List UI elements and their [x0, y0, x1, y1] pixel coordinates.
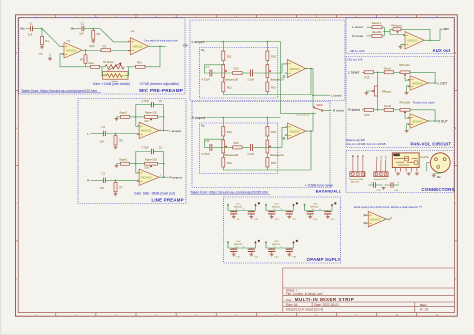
- capacitor C4: [102, 131, 104, 136]
- node pan: [377, 109, 379, 111]
- stub U4B in1: [365, 214, 369, 216]
- wire fb top right: [154, 104, 164, 106]
- wire pot wiper row: [212, 146, 233, 148]
- capacitor C10: [268, 211, 275, 213]
- svg-text:U3B: U3B: [144, 168, 149, 170]
- svg-text:U4C: U4C: [237, 241, 242, 243]
- svg-text:NE5532: NE5532: [412, 81, 423, 85]
- svg-text:R toned: R toned: [333, 109, 344, 113]
- svg-text:U5C: U5C: [275, 241, 280, 243]
- ground C16: [271, 252, 273, 255]
- resistor R12: [222, 82, 225, 92]
- wire L toned in: [362, 71, 364, 73]
- wire node to R6: [115, 134, 117, 136]
- power arrow U4C: [254, 241, 256, 243]
- grounds J3: [397, 172, 399, 175]
- svg-text:R13: R13: [234, 67, 239, 71]
- svg-text:U1A: U1A: [66, 40, 71, 43]
- wire inv stub: [407, 124, 410, 130]
- wire un-toned bypass: [281, 42, 317, 114]
- capacitor C14: [248, 248, 255, 250]
- svg-text:+-/15dB tone range: +-/15dB tone range: [305, 183, 333, 187]
- node fb mid: [135, 116, 137, 118]
- wire supply h U4C: [228, 247, 256, 249]
- wire U1B output: [148, 45, 165, 47]
- capacitor C5: [150, 149, 152, 154]
- opamp supply section box: [224, 197, 341, 263]
- node pot right: [163, 163, 165, 165]
- wire opamp out: [306, 130, 313, 132]
- wire rv to pot: [394, 109, 400, 111]
- node U1B fb: [159, 46, 161, 48]
- svg-text:MIC PRE-PREAMP: MIC PRE-PREAMP: [139, 88, 183, 93]
- op-amp U5A: [410, 76, 428, 90]
- resistor Rvol2: [384, 108, 394, 111]
- power arrow U5C: [292, 241, 294, 243]
- svg-text:RauxR1: RauxR1: [372, 30, 382, 34]
- pot RPpan1: [375, 86, 378, 96]
- capacitor C2: [81, 26, 83, 31]
- node in r: [267, 41, 269, 43]
- wire drop left col: [222, 42, 224, 52]
- wire fb down: [310, 69, 312, 95]
- switch SW3 box: [103, 72, 129, 80]
- ground C20: [327, 214, 329, 217]
- node pot right: [163, 116, 165, 118]
- power pin U5C: [265, 242, 267, 249]
- ground Rgain2: [116, 164, 118, 166]
- power pin U3C: [304, 204, 306, 211]
- svg-text:SAL./on x10/3dB, SAL./on x10/3: SAL./on x10/3dB, SAL./on x10/3dB: [347, 143, 386, 146]
- node mic1: [41, 28, 43, 30]
- wire rgain: [130, 163, 136, 165]
- node L toned tap: [312, 94, 314, 96]
- svg-text:Rg: Rg: [201, 124, 205, 128]
- trimmer RV1 arrow: [108, 63, 122, 71]
- svg-text:R20: R20: [365, 113, 370, 117]
- svg-text:R10: R10: [137, 61, 142, 65]
- ground U4 noninv: [401, 45, 406, 46]
- svg-text:CONNECTORS: CONNECTORS: [422, 187, 455, 192]
- connector J2 pins: [375, 161, 377, 172]
- ground C14: [250, 252, 252, 255]
- svg-text:R23: R23: [234, 141, 239, 145]
- capacitor C15: [372, 182, 374, 188]
- wire out to aux label: [440, 29, 443, 40]
- pot RPvol1B: [400, 108, 410, 111]
- baxandall section box: [192, 102, 330, 188]
- wire ch2 out to switch: [312, 113, 314, 132]
- node fb out: [163, 130, 165, 132]
- wire op out: [428, 120, 437, 122]
- svg-text:L toned: L toned: [348, 71, 359, 75]
- svg-text:1uF: 1uF: [100, 186, 105, 190]
- svg-text:TR Resist: TR Resist: [103, 61, 114, 64]
- node aux sum: [384, 31, 386, 33]
- wire rgain: [130, 116, 136, 118]
- op-amp U2B: [287, 123, 305, 139]
- wire pot left: [136, 163, 145, 165]
- svg-text:1uF: 1uF: [100, 139, 105, 143]
- svg-text:BAXANDALL: BAXANDALL: [316, 190, 342, 194]
- node fb out: [434, 82, 436, 84]
- svg-text:Mic: Mic: [71, 26, 76, 30]
- svg-text:R19: R19: [365, 75, 370, 79]
- capacitor C13: [248, 211, 255, 213]
- wire C1 to node: [33, 28, 42, 30]
- svg-text:R6: R6: [119, 139, 123, 143]
- wire rail to trimmer: [100, 66, 105, 68]
- svg-text:3: 3: [128, 41, 129, 43]
- wire xlr leads: [427, 163, 431, 169]
- svg-text:1: 1: [160, 128, 161, 130]
- wire r13 to cap: [242, 72, 250, 74]
- resistor RauxR1: [372, 34, 382, 37]
- wire r to pot l: [222, 61, 224, 65]
- svg-text:1uF: 1uF: [79, 32, 84, 36]
- svg-text:R15: R15: [271, 54, 276, 58]
- svg-text:NE5532: NE5532: [141, 129, 152, 133]
- wire cap to opamp: [253, 64, 288, 73]
- switch SW3 zigzag: [107, 74, 123, 78]
- svg-text:L OUT: L OUT: [381, 155, 383, 161]
- resistor R6: [114, 136, 117, 146]
- ground C19: [309, 214, 311, 217]
- node stage in: [115, 133, 117, 135]
- wire U3B output: [159, 176, 169, 178]
- wire rfb left: [390, 29, 393, 31]
- svg-text:Rvol2: Rvol2: [384, 104, 391, 108]
- svg-text:LINE PREAMP: LINE PREAMP: [152, 198, 184, 203]
- resistor R26: [266, 158, 269, 168]
- resistor R2: [84, 55, 87, 64]
- ground C21: [233, 252, 235, 255]
- tone section box: [190, 20, 345, 101]
- wire aux sum node: [383, 27, 385, 36]
- node in r: [267, 117, 269, 119]
- wire bottom join: [223, 167, 311, 170]
- svg-text:R OUT: R OUT: [385, 154, 387, 161]
- power rail node U2C: [296, 202, 298, 204]
- wire inv stub: [285, 72, 288, 74]
- power pin U2C: [265, 204, 267, 211]
- resistor R23: [233, 146, 242, 149]
- mic pre-preamp section box: [19, 18, 185, 94]
- wire mic1 to C1: [26, 28, 30, 30]
- svg-text:L OUT: L OUT: [438, 81, 448, 85]
- resistor R16: [266, 82, 269, 92]
- connector J4 xlr pins: [435, 158, 438, 161]
- svg-text:1uF: 1uF: [28, 32, 33, 36]
- svg-text:Rev:: Rev:: [420, 303, 427, 307]
- wire pot top rail: [410, 72, 435, 83]
- svg-text:3: 3: [138, 133, 139, 135]
- wire node to R1: [41, 29, 43, 37]
- svg-text:PAN-VOL CIRCUIT: PAN-VOL CIRCUIT: [411, 142, 452, 147]
- svg-text:RPvol1A: RPvol1A: [400, 63, 411, 67]
- svg-text:un-toned wire: un-toned wire: [297, 114, 311, 117]
- wire switch right: [125, 67, 129, 76]
- power rail node U1C: [258, 202, 260, 204]
- connectors section box: [346, 151, 454, 193]
- resistor R7: [114, 182, 117, 192]
- capacitor C19: [307, 211, 314, 213]
- resistor Rgain2: [121, 162, 130, 165]
- node U4 fb: [429, 40, 431, 42]
- pot Bdepass2A: [266, 140, 269, 153]
- pot Rgain=100: [145, 116, 158, 119]
- wire wiper to opamp: [405, 77, 410, 81]
- wire inv stub: [285, 134, 288, 136]
- inner gain box B: [199, 123, 277, 174]
- svg-text:NE5532: NE5532: [412, 119, 423, 123]
- svg-text:Mic: Mic: [437, 175, 442, 179]
- connector J2 body: [374, 172, 388, 177]
- svg-text:AUX out: AUX out: [433, 48, 451, 53]
- svg-text:R26: R26: [271, 161, 276, 165]
- wire rv to pot: [394, 71, 400, 73]
- svg-text:Bdepass1B: Bdepass1B: [224, 77, 238, 81]
- wire rfb right: [401, 29, 430, 40]
- node out fb: [310, 130, 312, 132]
- resistor Rfb aux: [393, 28, 401, 31]
- wire op out: [428, 82, 437, 84]
- svg-text:+27dB (trimmer adjustable): +27dB (trimmer adjustable): [139, 82, 179, 86]
- wire bottom join right col: [266, 167, 268, 170]
- svg-text:Balance adj 3dB: Balance adj 3dB: [347, 139, 366, 142]
- svg-text:L toned: L toned: [331, 93, 341, 97]
- wire cap C17 top: [288, 211, 290, 212]
- svg-text:(W), (m), 10K: (W), (m), 10K: [348, 58, 363, 61]
- svg-text:RPvol1B: RPvol1B: [400, 101, 411, 105]
- svg-text:R4: R4: [97, 32, 101, 36]
- svg-text:Da: Da: [183, 43, 187, 47]
- title block outline: [282, 268, 284, 313]
- svg-text:3: 3: [138, 180, 139, 182]
- wire node to R2: [85, 50, 87, 55]
- wire trimmer to R10: [127, 66, 136, 68]
- svg-text:1: 1: [160, 175, 161, 177]
- svg-text:4.75uF: 4.75uF: [202, 152, 211, 156]
- wire R2 to rail: [85, 63, 87, 67]
- node in l: [223, 41, 225, 43]
- svg-text:R12: R12: [227, 85, 232, 89]
- wire cap row: [369, 184, 374, 186]
- wire r to pot l: [222, 136, 224, 140]
- svg-text:C4: C4: [102, 125, 106, 129]
- wire U4 out: [424, 39, 440, 41]
- wire switch left: [102, 67, 107, 76]
- wire pot to r2 r: [266, 78, 268, 83]
- ground R7: [115, 192, 117, 194]
- wire r13 to cap: [242, 146, 250, 148]
- svg-text:Rsw: Rsw: [89, 61, 94, 65]
- wire cap C20 top: [327, 211, 329, 212]
- svg-text:Bdepass2B: Bdepass2B: [224, 153, 238, 157]
- wire U1A out to R3: [82, 49, 101, 51]
- svg-text:Extra opamp from AUX circuit.: Extra opamp from AUX circuit. Maybe a pe…: [354, 205, 422, 209]
- wire drop right col: [266, 118, 268, 127]
- op-amp U1B: [131, 38, 149, 55]
- capacitor C16: [268, 248, 275, 250]
- wire pot top rail: [410, 110, 435, 121]
- svg-text:Probar si su clarte: Probar si su clarte: [413, 100, 435, 104]
- svg-text:R3: R3: [103, 45, 107, 49]
- capacitor C11: [250, 70, 252, 77]
- wire r to node: [374, 71, 385, 73]
- svg-text:Rg: Rg: [201, 48, 205, 52]
- svg-text:R7: R7: [119, 186, 123, 190]
- power pin U4C: [227, 242, 229, 249]
- resistor R1: [41, 36, 44, 45]
- svg-text:R11: R11: [227, 54, 232, 58]
- svg-text:U3A: U3A: [144, 120, 149, 123]
- ground opamp R OUT: [406, 129, 408, 132]
- svg-text:1: 1: [150, 44, 151, 46]
- wire bottom join right col: [266, 92, 268, 95]
- wire pot left: [136, 116, 145, 118]
- resistor Rsw gain: [91, 65, 100, 68]
- svg-text:R21: R21: [227, 130, 232, 134]
- wire pot right: [158, 116, 164, 118]
- switch SW1 contact a: [313, 107, 315, 109]
- resistor R21: [222, 127, 225, 137]
- wire R toned in: [362, 109, 364, 111]
- resistor R11: [222, 51, 225, 61]
- wire supply h U1C: [228, 210, 256, 212]
- ground U1A noninv: [49, 56, 51, 58]
- svg-text:GND: GND: [38, 54, 43, 56]
- wire fb top left: [136, 152, 151, 174]
- dnc circle: [283, 76, 285, 78]
- inner gain box A: [199, 48, 277, 99]
- wire cap C14 top: [250, 248, 252, 249]
- capacitor C16: [390, 182, 392, 188]
- wire cap C9 top: [233, 211, 235, 212]
- svg-text:NE5532: NE5532: [370, 217, 381, 221]
- wire cap C18 top: [288, 248, 290, 249]
- svg-text:NE5532: NE5532: [141, 176, 152, 180]
- svg-text:KiCad E.D.A. kicad (6.0.4): KiCad E.D.A. kicad (6.0.4): [286, 308, 323, 312]
- wire node to R7: [115, 180, 117, 182]
- svg-text:L toned: L toned: [352, 25, 362, 29]
- resistor Rvol1: [384, 71, 394, 74]
- svg-text:R2: R2: [80, 57, 84, 61]
- svg-text:Rgain2: Rgain2: [120, 159, 128, 162]
- wire input rail: [204, 117, 281, 119]
- wire cap hook: [205, 139, 224, 147]
- svg-text:NE5532: NE5532: [407, 39, 418, 43]
- svg-text:1.0uF: 1.0uF: [247, 152, 254, 156]
- power arrow U1C: [254, 203, 256, 205]
- wire fb top right: [154, 151, 164, 153]
- op-amp U1A: [64, 43, 82, 59]
- node fb mid: [135, 163, 137, 165]
- resistor RauxL1: [372, 26, 382, 29]
- svg-text:Size: A4: Size: A4: [286, 303, 298, 307]
- pot RPvol1A: [400, 71, 410, 74]
- connector J3 pins: [394, 168, 396, 172]
- switch SW1 contact b: [321, 110, 323, 112]
- ground R4: [92, 39, 94, 41]
- wire U1A inv to rail: [60, 54, 91, 67]
- svg-text:GND: GND: [89, 45, 95, 48]
- ground R1: [41, 45, 43, 47]
- resistor R10: [136, 65, 146, 68]
- wire L toned tap: [313, 94, 330, 96]
- trimmer RV1 zigzag: [105, 65, 124, 69]
- svg-text:C8: C8: [206, 139, 210, 143]
- svg-text:Rgain=100: Rgain=100: [145, 159, 157, 162]
- wire opamp out: [306, 68, 313, 70]
- power rail node U4C: [258, 240, 260, 242]
- capacitor C6: [150, 102, 152, 107]
- svg-text:L amped: L amped: [169, 129, 181, 133]
- op-amp U4B spare: [368, 211, 386, 227]
- switch SW1 lever: [315, 108, 322, 110]
- ground C17: [288, 214, 290, 217]
- line preamp section box: [78, 99, 186, 204]
- wire ch1 out down: [312, 69, 314, 107]
- svg-text:U3C: U3C: [313, 203, 318, 205]
- wire pot to r2 r: [266, 153, 268, 158]
- svg-text:*) am switch for extra boost m: *) am switch for extra boost mode: [144, 39, 179, 42]
- svg-text:2: 2: [128, 51, 129, 53]
- svg-text:Combo: Combo: [420, 155, 429, 159]
- op-amp U3B: [139, 169, 159, 185]
- node pan: [377, 72, 379, 74]
- wire cap C21 top: [233, 248, 235, 249]
- resistor R4: [92, 31, 95, 40]
- svg-text:aux: aux: [444, 27, 450, 31]
- svg-text:Rfb(aux): Rfb(aux): [391, 24, 401, 28]
- wire cap C10 top: [271, 211, 273, 212]
- power pin U1C: [227, 204, 229, 211]
- svg-text:Gain: +12dB (with switch): Gain: +12dB (with switch): [93, 82, 130, 86]
- pot Bdepass1B: [222, 65, 225, 78]
- power arrow U3C: [331, 203, 333, 205]
- svg-text:MULTI-IN MIXER STRIP: MULTI-IN MIXER STRIP: [295, 297, 354, 302]
- wire pot wiper row: [212, 72, 233, 74]
- wire drop right col: [266, 42, 268, 52]
- wire r to pot r: [266, 136, 268, 140]
- capacitor C3: [102, 178, 104, 183]
- op-amp U4A: [405, 32, 424, 50]
- svg-text:Id: 1/1: Id: 1/1: [420, 308, 429, 312]
- connector J3 notch: [393, 154, 400, 157]
- capacitor C21: [230, 248, 237, 250]
- resistor R20: [364, 108, 374, 111]
- ground C18: [288, 252, 290, 255]
- capacitor C17: [286, 211, 293, 213]
- ground caps mid: [383, 186, 385, 189]
- svg-text:NE5532: NE5532: [234, 244, 243, 246]
- dnc circle: [283, 137, 285, 139]
- resistor R25: [266, 127, 269, 137]
- svg-text:NE5532: NE5532: [272, 244, 281, 246]
- svg-text:Bdepass1A: Bdepass1A: [270, 77, 284, 81]
- node R2 top: [85, 49, 87, 51]
- wire mic2 to C2: [76, 28, 81, 30]
- node out fb: [310, 68, 312, 70]
- connector J4 xlr body: [430, 153, 450, 173]
- svg-text:NE5532: NE5532: [311, 206, 320, 208]
- page edge shading: [0, 0, 1, 335]
- resistor Rgain1: [121, 115, 130, 118]
- wire pot to r2 l: [222, 78, 224, 83]
- svg-text:Mic: Mic: [20, 26, 25, 30]
- wire inv stub: [407, 86, 410, 92]
